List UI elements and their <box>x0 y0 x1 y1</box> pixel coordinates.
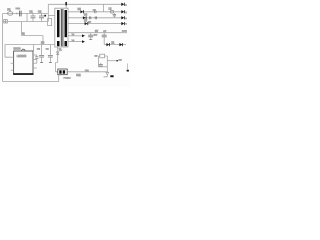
label R11 <box>76 74 81 77</box>
label rtn right <box>122 31 127 33</box>
optocoupler U2 transistor <box>63 70 65 73</box>
wire R9 left drop <box>98 56 99 67</box>
transformer T1 primary winding <box>57 10 60 46</box>
wire rail to IC top <box>33 45 35 52</box>
svg-text:F1: F1 <box>7 7 11 11</box>
label R1 <box>22 33 26 36</box>
label C6 value <box>94 35 98 37</box>
label C1 <box>29 10 33 14</box>
svg-text:RTN: RTN <box>122 31 127 33</box>
label U2 part <box>64 78 72 80</box>
label D7 <box>84 20 88 23</box>
wire lower secondary row <box>104 44 126 46</box>
diode D5 <box>80 10 84 13</box>
diode D1 <box>65 2 67 5</box>
svg-text:R11: R11 <box>76 74 81 77</box>
terminal arrow row D <box>121 22 125 25</box>
terminal arrow row A <box>121 3 125 6</box>
resistor R2 <box>48 18 52 25</box>
wire zener to opto <box>56 62 58 71</box>
label tl431 dark <box>110 75 113 77</box>
wire secondary pin row B <box>68 11 121 13</box>
node fuse tick <box>16 13 18 15</box>
label tap1 <box>72 34 75 36</box>
transformer T1 body <box>55 8 68 47</box>
label out D <box>125 24 127 26</box>
ic U1 notch <box>22 49 26 51</box>
label C5 <box>46 48 50 50</box>
capacitor C1 <box>31 13 36 21</box>
label C2 <box>38 10 42 14</box>
label D6 <box>84 14 88 17</box>
wire bias return <box>22 36 43 45</box>
wire drain stub <box>48 15 55 17</box>
svg-text:D3 D4: D3 D4 <box>14 47 21 50</box>
ic U1 bottom bar <box>13 73 33 75</box>
label tap2 <box>72 40 75 42</box>
wire primary top pin <box>65 5 67 8</box>
resistor R9 <box>100 54 105 58</box>
label under rail <box>14 47 21 50</box>
pin U1 right fb <box>33 62 37 64</box>
svg-text:LNK305: LNK305 <box>17 54 27 58</box>
capacitor C3 bypass <box>35 55 38 63</box>
transformer T1 secondary winding <box>65 10 68 46</box>
label D5 <box>78 8 82 11</box>
optocoupler U2 led <box>59 70 61 73</box>
terminal arrow row B <box>121 10 125 13</box>
label out B <box>125 12 127 14</box>
label RV1 <box>16 8 21 10</box>
label C4 <box>37 48 41 50</box>
node tick ref end <box>116 60 118 61</box>
diode D2 <box>44 15 46 17</box>
ferrite bead FB1 <box>89 16 90 19</box>
label out C <box>125 18 127 20</box>
ic U1 body <box>14 51 33 74</box>
label D8 <box>111 42 115 45</box>
label ref <box>119 59 123 61</box>
label T1 <box>59 48 63 52</box>
svg-text:C2: C2 <box>38 10 42 14</box>
wire riser to clamp rail <box>47 4 49 21</box>
svg-text:C1: C1 <box>29 10 33 14</box>
wire secondary pin row C <box>68 17 121 19</box>
capacitor C4 <box>39 45 44 63</box>
tl431 U3 <box>104 72 109 77</box>
label R9 <box>95 55 99 57</box>
label R5 <box>88 21 92 23</box>
wire secondary pin row D <box>68 23 121 25</box>
pin U1 left 2 <box>11 62 14 64</box>
diode D7 <box>85 22 89 25</box>
label F1 <box>7 7 11 11</box>
pin opto emitter <box>58 75 60 82</box>
label C8 <box>93 10 97 12</box>
label L2 <box>109 8 112 11</box>
wire node N drop <box>26 13 28 21</box>
net arrow tap2 <box>68 40 85 43</box>
terminal arrow row F <box>119 43 123 46</box>
diode D8 <box>106 43 110 46</box>
label return <box>95 30 98 33</box>
wire top input rail <box>3 12 49 14</box>
label out A <box>125 4 127 6</box>
svg-text:PC817: PC817 <box>64 78 72 80</box>
label R4 <box>41 41 45 44</box>
capacitor C2 <box>39 13 44 21</box>
wire bias drop <box>21 22 23 36</box>
svg-text:0V: 0V <box>95 30 98 33</box>
zener VR1 <box>56 47 59 62</box>
wire clamp drop <box>103 4 105 12</box>
pin U1 left 3 <box>11 69 14 71</box>
inductor L2 <box>110 10 113 13</box>
connector J1 <box>4 20 8 23</box>
label U1 part <box>17 54 27 58</box>
pin U1 right bp <box>33 54 37 56</box>
label C11 <box>85 70 90 72</box>
pin U1 right d <box>33 67 37 69</box>
wire left input drop <box>2 13 4 81</box>
capacitor C9 <box>99 63 103 66</box>
wire clamp top rail <box>48 3 121 5</box>
wire opto anode feed <box>67 71 107 73</box>
capacitor C7 <box>102 33 107 45</box>
terminal arrow row C <box>121 16 125 19</box>
capacitor CX1 <box>20 11 22 17</box>
ferrite bead FB2 <box>95 16 96 19</box>
wire bottom input rail <box>3 21 49 23</box>
net arrow tap1 <box>68 34 85 37</box>
svg-text:RV1: RV1 <box>16 8 21 10</box>
capacitor C6 <box>88 33 93 40</box>
wire rail to IC left <box>5 45 11 58</box>
diode D6 <box>83 16 87 19</box>
optocoupler U2 body <box>58 69 67 75</box>
net stub gnd <box>127 64 129 72</box>
pin U1 right mid <box>33 58 37 60</box>
pin U1 left 1 <box>11 56 14 58</box>
fuse F1 <box>8 12 13 16</box>
resistor R5 bars row B <box>95 10 96 13</box>
wire secondary return rail <box>68 32 127 34</box>
capacitor C10 <box>113 13 116 18</box>
wire source rail <box>5 44 55 46</box>
wire bottom return rail <box>3 81 59 83</box>
wire R9 to tl431 <box>105 56 108 72</box>
label C7 <box>103 31 107 33</box>
wire lower fb row <box>98 66 107 68</box>
capacitor C5 <box>48 45 53 63</box>
wire ref branch <box>107 60 117 62</box>
transformer T1 core <box>61 9 63 46</box>
